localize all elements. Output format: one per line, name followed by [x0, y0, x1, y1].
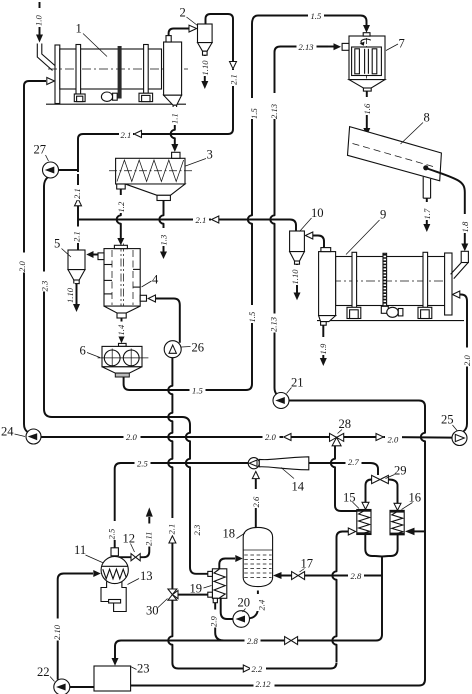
wire fan 14 suction from scrubber 11 (stream 2.5)	[115, 463, 249, 548]
svg-text:1.3: 1.3	[158, 235, 168, 246]
label 2.6	[251, 489, 262, 508]
label 2.5 on y464	[135, 457, 151, 469]
wire stream 2.12 riser from tank 23	[131, 407, 425, 686]
label 1.5 upper riser	[249, 98, 260, 119]
number 7	[386, 37, 405, 51]
wire stream 1.8 conveyor 8 to dryer 9	[461, 244, 468, 252]
wire stream 2.0 main header	[41, 434, 452, 441]
label 2.1 on y134	[119, 129, 133, 140]
wire stream 1.6 mixer 7 to conveyor 8	[363, 91, 370, 136]
wire stream 2.2 riser to heater 15	[332, 528, 355, 662]
label 1.1	[170, 107, 181, 125]
svg-text:30: 30	[146, 604, 159, 618]
label 2.0 header mid	[263, 431, 280, 443]
label 2.3 riser mid	[192, 518, 203, 536]
svg-text:2.3: 2.3	[192, 525, 202, 536]
wire valve 29 to heater 16 top	[389, 480, 402, 511]
dryer 9 discharge head	[319, 248, 336, 326]
number 2	[180, 6, 198, 26]
number 19	[190, 582, 212, 596]
valve 17	[292, 572, 305, 580]
svg-text:1.5: 1.5	[247, 311, 257, 322]
rotary dryer 9	[317, 252, 464, 320]
number 9	[346, 208, 386, 255]
label 2.8 at valve 17	[348, 570, 364, 582]
blower 26	[164, 341, 181, 358]
svg-text:2.1: 2.1	[121, 130, 132, 140]
svg-text:1.4: 1.4	[116, 324, 126, 335]
svg-text:1.5: 1.5	[192, 386, 203, 396]
svg-text:2.3: 2.3	[39, 281, 49, 292]
wire tank 18 circulation: bottom 2.4 to pump 20	[250, 591, 258, 619]
label 1.9	[318, 337, 329, 355]
svg-text:24: 24	[1, 425, 14, 439]
wire stream 1.10 cyclone 2 dust out	[201, 55, 208, 89]
svg-text:2.5: 2.5	[106, 528, 116, 539]
number 4	[142, 273, 160, 288]
label 2.1 on riser x233	[228, 70, 239, 86]
number 28	[338, 417, 352, 434]
number 20	[238, 596, 251, 613]
svg-text:10: 10	[311, 206, 324, 220]
wire stream 1.10 cyclone 10 dust out	[294, 264, 301, 300]
number 21	[287, 376, 304, 394]
label 2.13 upper riser	[269, 93, 280, 119]
svg-text:2.11: 2.11	[143, 532, 153, 546]
drum dryer-granulator 4	[98, 244, 147, 319]
wire stream 1.2 screw 3 to dryer 4	[117, 189, 125, 245]
svg-text:22: 22	[37, 665, 50, 679]
fan 14	[248, 457, 309, 470]
pump 22	[54, 679, 70, 694]
number 26	[182, 341, 205, 355]
number 3	[186, 148, 213, 167]
svg-text:2.0: 2.0	[17, 261, 27, 272]
number 10	[300, 206, 324, 232]
wire stream 2.8 into tank 23	[112, 641, 225, 666]
label 1.10 under cyclone 10	[290, 265, 301, 285]
number 14	[281, 468, 305, 494]
number 22	[37, 665, 55, 682]
wire into fan 27	[59, 164, 79, 172]
wire stream 2.13 pump 21 to mixer 7	[270, 43, 341, 394]
wire stream 1.7 conveyor 8 down	[423, 198, 430, 232]
svg-text:1.0: 1.0	[34, 15, 44, 26]
label 2.12	[254, 678, 275, 690]
wire stream 2.0 fan 25 riser into dryer 9	[452, 291, 467, 431]
svg-text:2.10: 2.10	[52, 624, 62, 640]
svg-text:2.0: 2.0	[265, 432, 276, 442]
tank 18	[243, 527, 272, 586]
svg-text:17: 17	[301, 557, 314, 571]
svg-text:2.1: 2.1	[166, 524, 176, 535]
valve 28 (three-way)	[330, 433, 344, 445]
svg-text:2.2: 2.2	[252, 664, 263, 674]
number 5	[54, 237, 71, 258]
svg-text:2.1: 2.1	[72, 188, 82, 199]
svg-text:11: 11	[74, 543, 86, 557]
inclined conveyor 8	[348, 127, 465, 244]
wire stream 2.0 riser from fan 24 to dryer 1	[24, 78, 55, 433]
label 2.0 left riser	[17, 253, 28, 273]
number 13	[128, 569, 153, 585]
label 2.11	[143, 524, 154, 547]
wire stream 2.1 via blower 26 into dryer 4	[148, 295, 180, 590]
svg-text:1.10: 1.10	[65, 287, 75, 303]
svg-text:18: 18	[223, 527, 236, 541]
label 2.13 mid riser	[268, 314, 279, 333]
svg-text:12: 12	[123, 532, 136, 546]
svg-text:27: 27	[34, 143, 47, 157]
fan 24	[26, 429, 41, 444]
svg-text:2.5: 2.5	[137, 459, 148, 469]
number 15	[343, 491, 359, 509]
cyclone 10	[290, 231, 305, 264]
wire fan 14 discharge / valve 28 branch / stream 2.7	[309, 445, 378, 512]
label 1.0	[34, 8, 45, 27]
svg-text:2.8: 2.8	[351, 571, 362, 581]
number 11	[74, 543, 104, 563]
label 1.2	[116, 195, 127, 213]
wire pump 20 to heater 19 coil	[221, 598, 233, 619]
number 6	[80, 344, 101, 358]
mixer 7	[342, 33, 385, 91]
wire scrubber 11 to valve 12 and stream 2.11 vent	[119, 507, 153, 557]
svg-text:2.13: 2.13	[269, 104, 279, 119]
svg-text:2.0: 2.0	[126, 432, 137, 442]
wire heater bottoms to stream 2.8	[224, 535, 398, 641]
svg-text:2.4: 2.4	[256, 599, 266, 610]
svg-text:2.1: 2.1	[72, 231, 82, 242]
number 27	[34, 143, 49, 162]
wire stream 2.1 horizontal from cyclone 10 to dryer 4 area	[78, 216, 296, 231]
drain seal 13	[101, 582, 126, 612]
svg-text:23: 23	[137, 662, 150, 676]
label 2.1 riser mid	[166, 518, 177, 535]
label 1.10 under cyclone 2	[200, 56, 211, 76]
dryer 9 right end and feed chute	[445, 251, 469, 315]
svg-text:20: 20	[238, 596, 251, 610]
wire stream 2.9 heater 19 bottoms	[215, 603, 224, 641]
svg-text:15: 15	[343, 491, 356, 505]
svg-text:13: 13	[140, 569, 153, 583]
heater 19	[208, 569, 227, 603]
wire valve 30 down and stream 2.2	[168, 600, 336, 672]
wire stream 2.3 fan 27 discharge down left side to heater 19	[44, 177, 208, 574]
svg-text:25: 25	[441, 413, 454, 427]
wire tank 23 to pump 22	[70, 686, 94, 688]
wire stream 1.9 dryer 9 product out	[320, 325, 327, 366]
fan 27	[43, 162, 59, 178]
wire heater 19 coil to tank 18	[219, 555, 243, 569]
svg-text:6: 6	[80, 344, 86, 358]
dryer 1 discharge head	[164, 25, 197, 109]
wire cyclone 5 inlet from dryer 4	[86, 251, 98, 258]
number 25	[441, 413, 457, 431]
svg-text:16: 16	[409, 491, 422, 505]
label 2.7	[346, 456, 362, 468]
wire valve 29 to heater 15 top	[362, 480, 372, 510]
svg-text:29: 29	[394, 464, 407, 478]
svg-text:21: 21	[291, 376, 304, 390]
fan 21	[273, 393, 289, 409]
number 12	[123, 532, 136, 553]
svg-text:4: 4	[152, 273, 159, 287]
svg-text:1.2: 1.2	[116, 201, 126, 212]
label 2.8 lower	[245, 635, 261, 647]
number 1	[76, 22, 108, 57]
valve 29	[372, 475, 389, 483]
label 2.13 top	[297, 41, 317, 53]
svg-text:2.6: 2.6	[251, 496, 261, 507]
label 1.5 mid riser	[247, 305, 258, 323]
valve on stream 2.8	[285, 637, 298, 645]
heater 15	[357, 510, 371, 535]
svg-text:2.7: 2.7	[348, 457, 359, 467]
number 8	[401, 111, 430, 145]
scrubber 11	[101, 548, 128, 584]
label 2.4	[256, 594, 266, 611]
label 2.0 header left	[124, 431, 141, 443]
label 2.10	[52, 619, 63, 641]
wire stream 2.6 tank 18 vapours to fan 14	[252, 471, 259, 527]
valve 12	[131, 554, 140, 561]
wire stream 2.8 into tank 18 via valve 17	[273, 572, 382, 579]
label 2.3 left riser	[39, 272, 50, 292]
svg-text:28: 28	[339, 417, 352, 431]
wire stream 1.5 crusher 6 to mixer 7	[124, 16, 370, 391]
label 2.1 lower on x77	[72, 227, 83, 244]
wire valve 30 to heater 19 shell	[178, 594, 208, 596]
wire pump 21 suction line	[289, 401, 425, 407]
svg-text:2.0: 2.0	[462, 355, 472, 366]
label 1.8	[460, 214, 471, 233]
wire stream 1.10 cyclone 5 dust out	[73, 284, 80, 313]
roll crusher 6	[98, 343, 149, 377]
pump 20	[233, 611, 250, 628]
svg-text:9: 9	[380, 208, 386, 222]
svg-text:19: 19	[190, 582, 203, 596]
label 1.3	[158, 228, 169, 246]
svg-text:1.8: 1.8	[460, 221, 470, 232]
rotary dryer 1	[46, 45, 188, 105]
svg-text:2.8: 2.8	[247, 636, 258, 646]
label 2.1 upper on x77	[72, 185, 83, 200]
number 18	[223, 527, 246, 541]
label 1.6	[362, 97, 373, 115]
svg-text:2.1: 2.1	[196, 215, 207, 225]
svg-text:2: 2	[180, 6, 186, 20]
screw conveyor 3	[109, 152, 192, 200]
wire cyclone 10 inlet from dryer 9 head	[305, 232, 324, 248]
label 2.5 riser	[106, 521, 117, 540]
svg-text:7: 7	[399, 37, 405, 51]
svg-text:2.13: 2.13	[299, 42, 314, 52]
svg-text:14: 14	[292, 480, 305, 494]
label 1.4	[116, 322, 127, 337]
svg-text:26: 26	[192, 341, 205, 355]
label 2.0 header right	[385, 433, 402, 445]
wire stream 1.3 product out of screw 3	[159, 201, 167, 260]
label 1.5 on y390	[190, 384, 206, 396]
valve 30 (three-way)	[168, 589, 178, 600]
svg-text:1.10: 1.10	[200, 60, 210, 76]
svg-text:1.7: 1.7	[422, 208, 432, 219]
number 30	[146, 599, 168, 618]
svg-text:1.5: 1.5	[249, 108, 259, 119]
svg-text:5: 5	[54, 237, 60, 251]
label 2.1 on y219	[193, 214, 209, 226]
svg-text:3: 3	[207, 148, 213, 162]
svg-text:2.9: 2.9	[208, 616, 218, 627]
label 1.10 under cyclone 5	[65, 284, 76, 304]
wire stream 1.1 dryer 1 to screw conveyor 3	[171, 110, 179, 153]
label 2.9	[208, 610, 219, 628]
number 23	[131, 662, 150, 676]
svg-text:1.1: 1.1	[170, 113, 180, 124]
label 2.0 right riser	[462, 348, 472, 367]
fan 25	[452, 431, 467, 446]
svg-text:1.10: 1.10	[290, 269, 300, 285]
svg-text:1.9: 1.9	[318, 343, 328, 354]
number 29	[386, 464, 407, 479]
wire stream 1.4 dryer 4 to crusher 6	[118, 318, 125, 343]
svg-text:2.13: 2.13	[268, 317, 278, 332]
label 1.7	[422, 202, 433, 220]
cyclone 5	[68, 250, 85, 284]
heater 16	[390, 510, 404, 534]
label 1.5 top	[308, 10, 324, 22]
wire stream 2.10 pump 22 to scrubber 11	[58, 570, 101, 680]
label 2.2	[250, 663, 266, 675]
svg-text:1.5: 1.5	[311, 11, 322, 21]
svg-text:1: 1	[76, 22, 82, 36]
cyclone 2	[198, 24, 213, 55]
number 24	[1, 425, 25, 439]
svg-text:8: 8	[424, 111, 430, 125]
svg-text:2.1: 2.1	[229, 74, 239, 85]
wire stream 2.1 cyclone 2 gas to fan 27	[78, 14, 237, 164]
tank 23	[94, 666, 131, 691]
wire branch to heater 16	[405, 528, 425, 536]
svg-text:2.0: 2.0	[388, 435, 399, 445]
number 17	[300, 557, 314, 573]
svg-text:2.12: 2.12	[256, 679, 272, 689]
svg-text:1.6: 1.6	[362, 103, 372, 114]
wire stream 2.1 vertical at cyclone 5 / junction	[75, 174, 82, 250]
number 16	[402, 491, 422, 510]
wire stream 1.0 feed into dryer 1	[36, 2, 56, 71]
